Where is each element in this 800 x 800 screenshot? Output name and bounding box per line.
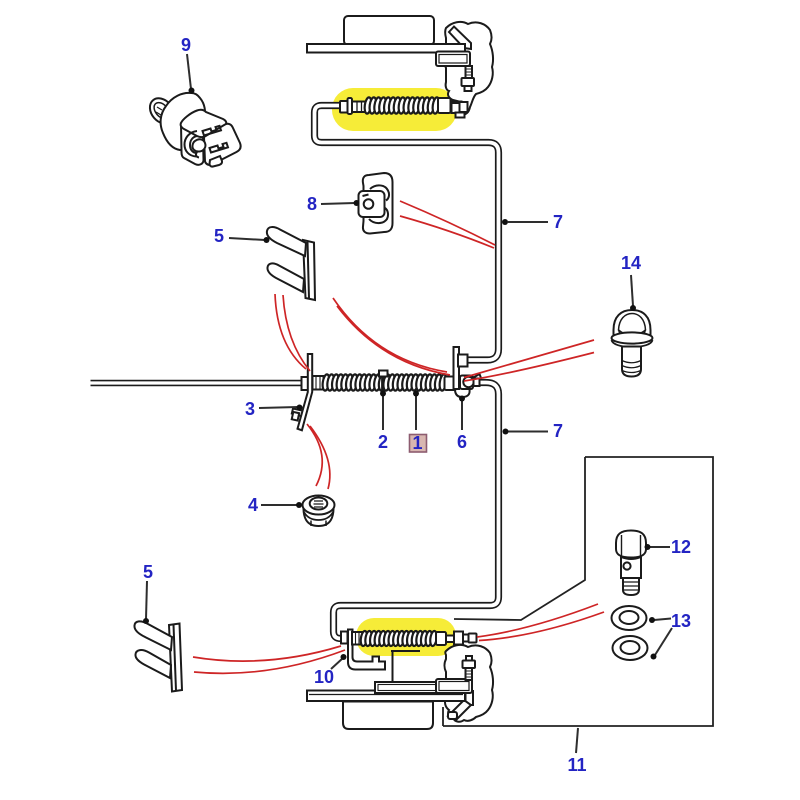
bottom hose: left pipe fitting: [341, 632, 348, 644]
PART 12 banjo bolt: [616, 531, 646, 596]
bottom clamp bar: [436, 679, 472, 693]
slots on part 9: [203, 126, 222, 136]
leader 5 top: [229, 237, 270, 243]
svg-text:13: 13: [671, 611, 691, 631]
leader 10: [331, 654, 347, 669]
PART 5 top fork clip: [267, 227, 315, 300]
PART 8 pipe clip: [359, 173, 393, 234]
yellow highlight bottom hose: [356, 618, 456, 656]
leader 5 bottom: [143, 581, 149, 624]
bracket 6 plate: [454, 347, 460, 389]
top hose collar: [352, 102, 367, 113]
top hose tall nut bar: [348, 98, 353, 114]
upper thin plate bottom assembly: [375, 682, 465, 693]
pair top clip5 to bracket6: [333, 298, 447, 372]
leader 1: [413, 391, 419, 431]
leader 2: [380, 391, 386, 431]
pair bolt14 to banjo: [464, 340, 594, 378]
svg-text:1: 1: [412, 433, 422, 453]
leader 12: [645, 544, 671, 550]
svg-text:10: 10: [314, 667, 334, 687]
bottom hose right ferrule: [436, 632, 446, 645]
PART 5 bottom fork clip: [134, 621, 182, 691]
leader 13 lower: [651, 628, 673, 660]
leader 7 upper: [502, 219, 548, 225]
PART 14 bolt: [612, 310, 653, 377]
bracket 6 top fitting: [458, 355, 468, 367]
bottom clamp bolt: [466, 656, 472, 661]
leader 3: [259, 405, 303, 411]
PART 9 grommet clip: [145, 93, 241, 167]
top hose tube end: [451, 102, 462, 110]
svg-text:8: 8: [307, 194, 317, 214]
svg-text:3: 3: [245, 399, 255, 419]
bottom hose hex: [352, 632, 363, 645]
bracket 3 bent strip: [298, 354, 313, 430]
bottom hose tube: [446, 636, 455, 643]
svg-text:7: 7: [553, 421, 563, 441]
caliper body bottom: [445, 645, 494, 722]
pipe from mid banjo down to bottom hose (part7 lower): [334, 383, 499, 639]
bottom clamp arm connector: [466, 691, 474, 705]
box for 11/12/13: [443, 457, 713, 726]
plate top: [307, 44, 465, 53]
leader 9: [187, 54, 195, 94]
leader 14: [630, 275, 636, 311]
mid banjo: [460, 376, 473, 390]
clamp bolt top: [466, 66, 473, 79]
PART 13 washers: [612, 606, 648, 660]
svg-text:4: 4: [248, 495, 258, 515]
pair bottom clip5 to hose: [193, 646, 341, 661]
yellow highlight top hose: [332, 88, 457, 131]
svg-text:9: 9: [181, 35, 191, 55]
top hose right ferrule: [438, 98, 451, 113]
clamp upper jaw top: [449, 27, 471, 50]
bracket 6 hook: [455, 390, 470, 398]
mid hose right ferrule: [445, 377, 457, 391]
bottom plate: [307, 691, 465, 702]
left fitting behind bracket3: [302, 377, 309, 390]
svg-text:7: 7: [553, 212, 563, 232]
caliper body top right: [445, 22, 494, 114]
top hose banjo bits: [452, 103, 460, 113]
leader 13 upper: [649, 617, 671, 623]
bottom hose end fitting: [454, 632, 463, 645]
svg-text:2: 2: [378, 432, 388, 452]
top hose: left fitting: [340, 101, 348, 113]
top hose braid: [364, 97, 441, 114]
svg-text:12: 12: [671, 537, 691, 557]
svg-text:11: 11: [567, 755, 586, 775]
label 1 highlight box: [410, 435, 427, 453]
caliper mount lines bottom: [391, 651, 420, 682]
clip part 2 on hose: [379, 371, 388, 377]
bottom clamp jaw: [448, 700, 471, 720]
PART 4 grommet: [303, 496, 335, 527]
pair from part8 to pipe7: [400, 201, 495, 245]
leader 4: [261, 502, 302, 508]
main metal pipe middle left: [91, 380, 306, 386]
bracket 10: [348, 630, 385, 670]
pair bracket3 to grommet4: [307, 424, 322, 486]
svg-text:5: 5: [214, 226, 224, 246]
leader 7 lower: [503, 429, 549, 435]
inner C ring of part 9: [185, 131, 198, 157]
pair top clip5 to hose left: [275, 294, 306, 369]
leader 8: [321, 200, 360, 206]
svg-text:6: 6: [457, 432, 467, 452]
pipe from top hose down right side (part7 upper): [315, 106, 499, 361]
pair bottom banjo to washers: [477, 604, 598, 637]
bottom hose braid: [360, 631, 438, 647]
drum top: [344, 16, 434, 45]
clamp bar top: [436, 52, 470, 67]
leader 11: [576, 728, 578, 753]
svg-text:5: 5: [143, 562, 153, 582]
bracket 3 tab: [292, 409, 307, 418]
leader 6: [459, 396, 465, 431]
bottom drum: [343, 702, 433, 730]
svg-text:14: 14: [621, 253, 641, 273]
mid hose hex: [313, 376, 324, 390]
mid hose braid: [322, 374, 448, 391]
